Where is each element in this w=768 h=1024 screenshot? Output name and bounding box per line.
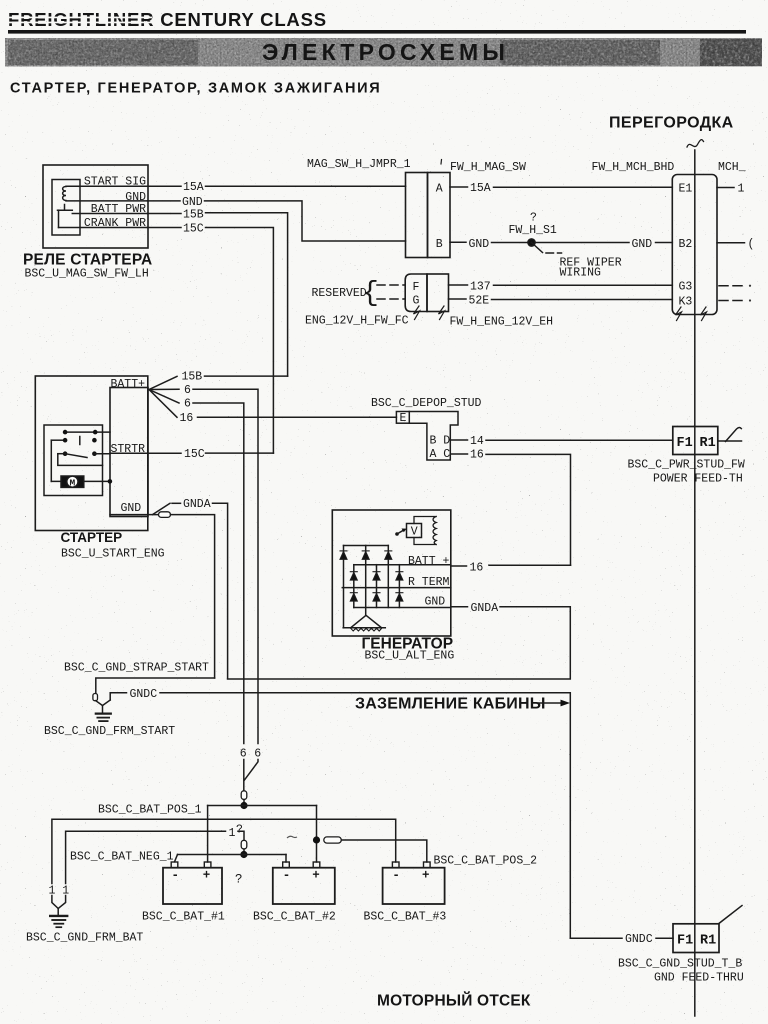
starter switch blade	[51, 440, 102, 481]
relay internal pin lines	[59, 186, 148, 227]
battery ground wires labels 1 1	[49, 884, 70, 915]
bulkhead connector break symbols	[676, 307, 707, 321]
page title FREIGHTLINER CENTURY CLASS	[8, 9, 327, 30]
generator ГЕНЕРАТОР outer box	[332, 510, 451, 636]
relay pin labels	[84, 176, 146, 231]
splice FW_H_S1	[509, 212, 622, 280]
battery #2	[253, 862, 336, 923]
connector ENG_12V F/G boxes	[405, 274, 448, 312]
wire GNDC from stud	[96, 688, 571, 938]
battery feed inline connector (vertical oval)	[241, 791, 247, 802]
wire 15B relay segment	[148, 208, 288, 376]
ground strap BSC_C_GND_STRAP_START	[64, 662, 215, 694]
generator BATT+ line	[354, 564, 451, 566]
wire 137 to G3	[449, 280, 673, 293]
diode row bottom	[350, 593, 403, 601]
frame ground symbol BSC_C_GND_FRM_BAT	[26, 916, 143, 944]
diode row middle	[350, 572, 403, 580]
relay coil	[63, 187, 66, 201]
ground stud connector bar	[93, 694, 98, 701]
starter GND wire with inline connector	[110, 512, 215, 678]
relay РЕЛЕ СТАРТЕРА outer box	[43, 165, 148, 248]
wire 16 DEPOP to generator BATT+	[450, 449, 570, 575]
starter terminal box	[110, 388, 148, 517]
starter name labels	[61, 530, 165, 560]
connector F/G break symbols	[414, 306, 445, 320]
relay inner box	[52, 180, 80, 236]
relay contact switch	[58, 205, 73, 228]
diode row top	[340, 551, 392, 559]
wire 15C relay segment	[148, 222, 274, 453]
battery ground line (to BAT#3 minus)	[52, 819, 396, 883]
wire GNDC to bottom stud	[570, 933, 673, 946]
header underline	[8, 30, 746, 34]
starter fan wire 6 (second)	[149, 390, 244, 744]
stud BSC_C_PWR_STUD F1/R1 box	[628, 427, 745, 486]
starter solenoid box	[44, 425, 103, 496]
connector MAG_SW_H_JMPR_1 labels	[307, 158, 526, 174]
wire 15A relay to connector A	[148, 181, 406, 194]
stator delta winding	[343, 615, 385, 631]
bulkhead break symbol	[687, 140, 704, 147]
starter pin labels	[111, 378, 146, 515]
starter STRTR wire to label 15C	[94, 448, 273, 461]
stud BSC_C_DEPOP_STUD	[371, 397, 482, 461]
label ЗАЗЕМЛЕНИЕ КАБИНЫ with arrow	[355, 696, 570, 713]
wire GNDA label branch from starter	[153, 498, 228, 679]
battery negative line with label 1	[66, 823, 247, 883]
generator name labels	[362, 636, 455, 663]
connector A/B boxes	[406, 173, 451, 258]
wire 52E to K3	[449, 294, 673, 307]
battery positive bus 2 BSC_C_BAT_POS_2	[313, 836, 537, 867]
voltage regulator V box	[395, 524, 421, 539]
stud BSC_C_GND_STUD F1/R1 box (bottom)	[618, 906, 744, 985]
starter СТАРТЕР outer box	[35, 376, 148, 531]
battery #1	[142, 862, 225, 923]
phase rail	[342, 587, 451, 589]
wire GNDA generator to ground loop	[228, 602, 571, 679]
rectifier column lines	[344, 546, 400, 628]
wire 15A connector A to E1	[450, 182, 672, 195]
starter BATT+ fan wire 15B	[149, 371, 288, 390]
starter fan wire 16 to DEPOP stud E	[149, 390, 396, 425]
reserved pins note	[312, 278, 406, 309]
relay name labels	[23, 252, 152, 281]
generator GND line	[354, 607, 451, 609]
frame ground symbol BSC_C_GND_FRM_START	[44, 705, 175, 737]
bulkhead boundary line	[694, 150, 696, 1016]
wire GND relay to connector B	[148, 196, 406, 241]
wire 14 to PWR stud F1	[450, 435, 673, 448]
starter motor M	[51, 476, 112, 488]
connector F/G harness labels	[305, 315, 553, 329]
wire 6/6 labels in descending pair	[240, 747, 261, 791]
battery negative bus BSC_C_BAT_NEG_1	[70, 850, 286, 863]
bulkhead connector FW_H_MCH_BHD	[592, 161, 746, 315]
generator internal pin labels	[408, 555, 450, 608]
starter solenoid contacts	[51, 430, 110, 445]
wires MCH side (cut at page edge)	[717, 183, 754, 302]
battery positive bus BSC_C_BAT_POS_1	[98, 802, 317, 862]
banner ЭЛЕКТРОСХЕМЫ	[5, 38, 762, 67]
starter fan wire 6 (first)	[149, 384, 258, 744]
battery #3	[364, 862, 447, 923]
rectifier top rail	[344, 545, 389, 547]
regulator field coil loop	[414, 517, 436, 545]
wire GND connector B to B2	[450, 238, 672, 251]
smudge near battery 2	[287, 836, 297, 838]
